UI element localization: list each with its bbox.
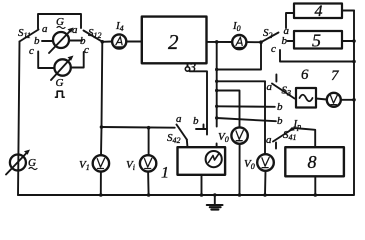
wire Vi to bus [147, 172, 150, 195]
ground [207, 193, 223, 209]
wire ammeter I0 to S2 [246, 41, 261, 43]
ammeter A (I0) [232, 20, 246, 49]
box 6 (sine shaper) [296, 67, 316, 108]
svg-text:c: c [271, 43, 276, 55]
ammeter A (I4) [112, 20, 126, 49]
svg-text:1: 1 [161, 165, 169, 182]
wire box5 to right rail [342, 40, 354, 42]
svg-text:2: 2 [168, 30, 179, 54]
wire box1 to bus [201, 175, 203, 195]
svg-text:4: 4 [315, 3, 323, 20]
switch S2 [261, 25, 290, 55]
box 8 [285, 147, 344, 176]
switch S42 [167, 113, 199, 147]
wire to S41 contact b [217, 118, 276, 121]
wire c path right [71, 52, 84, 68]
box 5 [294, 31, 342, 51]
wire ammeter bypass loop [216, 42, 218, 127]
svg-text:b: b [277, 101, 283, 113]
voltmeter 7 [327, 68, 341, 107]
generator G3 (left, adjustable) [6, 150, 37, 175]
wire common vertical to S41/V0 [264, 81, 266, 154]
junction at S2 pivot [259, 40, 263, 44]
wire S12 node down to V1 [101, 42, 102, 155]
box 4 [294, 3, 342, 20]
node S42 contact b tick [203, 125, 205, 130]
junction node at S12 output [101, 40, 105, 44]
svg-text:a: a [42, 23, 48, 35]
wire box8 to bus [314, 176, 316, 195]
wire stub into box1 top [216, 144, 218, 148]
wire box2 to ammeter I0 [207, 41, 233, 43]
wire b lead left [42, 40, 53, 42]
switch S41 [266, 118, 315, 149]
wire generator-block top rail (a-a path) [38, 14, 81, 29]
wire voltmeter7 to right rail [341, 99, 354, 101]
wire c path left [38, 52, 54, 69]
wire box6 to voltmeter7 [316, 99, 327, 100]
wire bottom bus [18, 194, 354, 196]
wire b lead right [69, 40, 82, 42]
svg-text:a: a [176, 113, 182, 125]
wire lower V0 to bus [264, 171, 267, 195]
wire S2 contact b to box5 [288, 40, 295, 42]
junction Vi tap [147, 126, 151, 130]
svg-text:b: b [193, 115, 199, 127]
voltmeter V1 [79, 155, 109, 172]
switch S3 [267, 75, 295, 99]
wire node to ammeter [102, 41, 112, 43]
box 2 [142, 17, 207, 64]
svg-text:b: b [34, 35, 40, 47]
svg-text:b: b [80, 35, 86, 47]
junction V1 tap [100, 125, 104, 129]
svg-text:5: 5 [312, 31, 321, 51]
wire left vertical rail [18, 42, 20, 196]
generator G2 (pulse, adjustable) [51, 56, 74, 98]
switch S12 [72, 24, 102, 47]
wire to upper V0 [217, 91, 240, 128]
wire to S3 contact b [217, 105, 275, 108]
svg-text:8: 8 [308, 152, 317, 172]
wire ammeter to box2 [126, 41, 142, 43]
junction loop bottom [215, 68, 218, 71]
wire S2 contact c to right rail [280, 50, 354, 62]
voltmeter V0 upper [218, 127, 248, 144]
wire to S3 contact a [217, 80, 265, 82]
junction c on right rail [352, 60, 356, 64]
svg-text:c: c [29, 45, 34, 57]
wire V1 to bus [100, 172, 102, 195]
wire S2 contact a to box4 [286, 13, 294, 28]
svg-text:a: a [72, 24, 78, 36]
wire upper V0 to bus [239, 144, 241, 195]
box 1 (oscilloscope) [161, 147, 225, 181]
junction on box2 output [215, 40, 219, 44]
wire box4 to right rail [342, 10, 354, 12]
wire right vertical rail [353, 11, 355, 196]
generator G1 (sine, adjustable) [49, 16, 74, 53]
switch S11 [18, 23, 48, 57]
svg-text:G: G [56, 77, 64, 89]
wire V1 tap to S42 [102, 126, 175, 129]
svg-text:b: b [277, 115, 283, 127]
voltmeter V0 lower [244, 154, 274, 171]
terminal 3 [185, 60, 196, 75]
svg-text:6: 6 [301, 67, 309, 83]
voltmeter Vi [126, 128, 156, 172]
wire terminal3 to S42 contact b [190, 71, 207, 134]
svg-text:a: a [266, 134, 272, 146]
junction box5 on right rail [352, 39, 356, 43]
